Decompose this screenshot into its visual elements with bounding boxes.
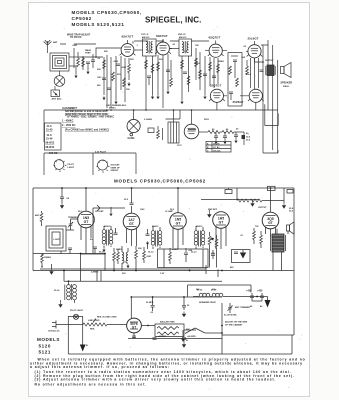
gnd bottom left B- (80, 341, 86, 352)
svg-text:6SQ7GT: 6SQ7GT (209, 36, 221, 40)
svg-text:WAVE TRAP ADJUST: WAVE TRAP ADJUST (67, 34, 91, 37)
right rails (263, 40, 278, 153)
svg-text:ANT. ADJ.: ANT. ADJ. (52, 98, 63, 101)
svg-text:5120: 5120 (39, 344, 51, 349)
tall coupling box (228, 53, 242, 107)
antenna trimmer bottom (227, 303, 232, 313)
IF coil pair C / diode transformer (194, 231, 205, 247)
svg-text:25L6GT: 25L6GT (248, 37, 259, 41)
resistors left of output transformer (253, 228, 263, 248)
label wave trap values (72, 45, 92, 55)
svg-text:OSC. PADDER ADJ.: OSC. PADDER ADJ. (106, 104, 127, 107)
svg-text:+40 MFD: +40 MFD (187, 335, 196, 338)
power transformer (168, 110, 179, 143)
svg-text:110V.AC.DC: 110V.AC.DC (48, 330, 60, 333)
svg-text:456KC: 456KC (152, 225, 159, 228)
tube U3 1N5GT (170, 213, 187, 230)
svg-text:BALLAST RES.: BALLAST RES. (160, 321, 176, 324)
svg-text:OSC: OSC (97, 77, 102, 79)
svg-text:2MEG: 2MEG (218, 61, 224, 63)
svg-text:PILOT LIGHT: PILOT LIGHT (70, 310, 84, 312)
output transformer T1 (266, 65, 275, 76)
svg-text:OUTPUT: OUTPUT (265, 60, 274, 62)
svg-text:MODELS CP5030,CP5060,: MODELS CP5030,CP5060, (72, 10, 142, 15)
note label top-left (67, 34, 91, 40)
left rail (32, 188, 34, 254)
resistor below loop left (41, 254, 44, 268)
svg-text:TRAP: TRAP (85, 52, 91, 55)
svg-text:(3) Adjust antenna trimmer wi: (3) Adjust antenna trimmer with a screw … (35, 378, 277, 382)
osc coil big (58, 281, 76, 308)
bottom-left model label (37, 337, 60, 355)
svg-text:35-L6: 35-L6 (54, 290, 60, 292)
svg-text:25Z6GT: 25Z6GT (233, 100, 244, 104)
svg-text:OF THE CABINET: OF THE CABINET (225, 323, 243, 326)
filter resistors and caps right of rectifier (199, 131, 244, 146)
svg-text:SPEAKER FIELD: SPEAKER FIELD (199, 301, 216, 304)
cap above U2 (130, 188, 134, 213)
svg-text:SPIEGEL, INC.: SPIEGEL, INC. (145, 15, 201, 24)
svg-text:10MEG: 10MEG (44, 257, 51, 259)
legend box (206, 142, 231, 153)
header model list (72, 10, 142, 27)
svg-text:456KC: 456KC (104, 225, 111, 228)
svg-text:(For CP5062 use 600KC and 1400: (For CP5062 use 600KC and 1400KC) (65, 129, 109, 132)
cap C21 (211, 250, 215, 259)
svg-text:25Z6: 25Z6 (204, 119, 210, 121)
svg-text:31-46: 31-46 (46, 138, 53, 141)
gnd B- near middle (181, 330, 185, 342)
svg-text:OUTPUT: OUTPUT (258, 207, 267, 209)
svg-text:ADJUST ON THE SIDE: ADJUST ON THE SIDE (225, 321, 248, 324)
IF can 2 (169, 39, 191, 56)
svg-text:GT: GT (132, 326, 136, 330)
svg-text:25K: 25K (104, 51, 108, 53)
misc wires under tubes (86, 228, 271, 249)
speaker SP (281, 63, 292, 78)
svg-text:98-W14: 98-W14 (46, 146, 55, 149)
under-tube resistors extra (117, 247, 188, 264)
svg-text:I.F. AMP: I.F. AMP (165, 210, 174, 213)
svg-text:GANG: GANG (128, 137, 135, 140)
svg-text:MODELS: MODELS (37, 337, 60, 342)
svg-text:TRIMMER: TRIMMER (68, 217, 78, 219)
right rail (293, 188, 295, 335)
tube U1 1N5GT (78, 211, 95, 228)
electrolytics (248, 293, 271, 308)
svg-text:LOOP: LOOP (54, 239, 61, 241)
tuning condenser C1 (54, 71, 65, 86)
svg-text:B+ AT 85 MA: B+ AT 85 MA (224, 314, 237, 317)
wave trap box (51, 86, 60, 96)
svg-text:LINE CORD: LINE CORD (88, 320, 100, 322)
svg-text:MODELS 5120,5121: MODELS 5120,5121 (72, 22, 125, 27)
wires to 6SA7 (60, 44, 121, 57)
svg-text:117V: 117V (177, 145, 182, 147)
svg-text:35-L2: 35-L2 (148, 252, 154, 254)
svg-text:22K: 22K (130, 59, 134, 61)
svg-text:2 GANG: 2 GANG (144, 118, 152, 121)
mid bus y270 (33, 254, 294, 271)
svg-text:117 AC: 117 AC (213, 146, 220, 149)
svg-text:+450: +450 (257, 290, 263, 293)
line ballast resistor (60, 323, 127, 326)
svg-text:100 KC: 100 KC (49, 152, 58, 155)
svg-text:2MEG: 2MEG (172, 249, 178, 251)
svg-text:FIELD: FIELD (283, 86, 290, 88)
svg-text:105-125: 105-125 (213, 150, 221, 152)
svg-text:6.3V PILOT: 6.3V PILOT (95, 152, 107, 154)
comps under 25L6 (246, 58, 264, 89)
svg-text:ANT: ANT (35, 214, 40, 217)
frame bottom right (222, 334, 294, 336)
antenna ANT (44, 40, 59, 48)
grid wire U1-U2 (93, 205, 125, 254)
comps under IF1 (145, 56, 154, 110)
tube V4 25L6GT (248, 41, 261, 58)
tube V5 6SQ7GT lower (210, 89, 223, 102)
box between U3 U4 (158, 249, 209, 268)
gnd left of U2 (109, 207, 112, 216)
svg-text:1MEG: 1MEG (194, 63, 200, 65)
svg-text:OSC.: OSC. (140, 209, 146, 211)
vertical x80.6 (81, 254, 105, 281)
svg-text:SOCKET: SOCKET (111, 165, 121, 167)
svg-text:456 KC: 456 KC (179, 36, 187, 39)
svg-text:SW: SW (186, 329, 189, 331)
cap + gnd from top bus (60, 188, 64, 209)
svg-text:VOLTS: VOLTS (213, 143, 220, 145)
extra value labels sch1 (136, 44, 274, 147)
IF coil pair B (151, 231, 162, 247)
loop antenna L1 (50, 53, 80, 71)
svg-text:20K: 20K (97, 69, 101, 71)
svg-text:2.2MEG: 2.2MEG (91, 271, 99, 273)
socket S2 (96, 160, 109, 173)
svg-text:6SA7GT: 6SA7GT (122, 35, 134, 39)
IF can 1 (134, 39, 156, 56)
filter chokes 300-300 (193, 293, 248, 297)
svg-text:CP5062: CP5062 (72, 16, 93, 21)
svg-text:B-: B- (186, 340, 189, 342)
svg-text:15K: 15K (126, 89, 130, 91)
loop antenna 2 (46, 226, 74, 251)
comps on top bus (225, 188, 232, 194)
svg-text:VOL: VOL (211, 253, 216, 255)
tube V1 6SA7GT (121, 40, 134, 56)
filament bus (33, 253, 105, 255)
tube U5 3Q5GT (262, 212, 279, 229)
components below 6SA7 (102, 55, 131, 108)
svg-text:1 - 456KC: 1 - 456KC (62, 119, 74, 122)
components below 6SK7 (156, 54, 172, 108)
comps under IF2 (180, 56, 190, 104)
svg-text:RES. IN LINE CORD: RES. IN LINE CORD (97, 317, 117, 319)
volume control (208, 232, 218, 251)
field coil label (283, 86, 290, 88)
svg-text:2 - 1500 KC: 2 - 1500 KC (62, 124, 76, 127)
osc coil below U2 (122, 246, 130, 268)
filament bypass caps (68, 247, 97, 254)
ballast box right of U6 (141, 324, 196, 337)
svg-text:.0001: .0001 (146, 256, 152, 258)
svg-text:PILOT: PILOT (68, 164, 75, 166)
svg-text:RES.: RES. (90, 329, 95, 331)
resistors under U2 (113, 246, 138, 264)
svg-text:B-: B- (86, 345, 89, 347)
svg-text:50L6: 50L6 (246, 74, 252, 76)
svg-text:.0001: .0001 (72, 45, 78, 47)
svg-text:6SK7GT: 6SK7GT (156, 34, 168, 38)
socket S1 (54, 159, 67, 172)
svg-text:456 KC: 456 KC (142, 36, 150, 39)
svg-text:WAVE: WAVE (85, 49, 92, 52)
svg-text:98-W12: 98-W12 (46, 142, 55, 145)
svg-text:1.5V: 1.5V (160, 273, 165, 275)
gnd left of U5 (250, 200, 254, 207)
resistor left rail sch2 (40, 211, 43, 226)
svg-text:+450: +450 (246, 290, 252, 293)
socket box row (44, 153, 136, 175)
sch2 value labels (44, 207, 267, 331)
svg-text:45V: 45V (230, 266, 234, 269)
IF coil pair A (102, 230, 113, 246)
svg-text:SPEAKER: SPEAKER (281, 82, 293, 85)
tube pin stubs (120, 52, 264, 101)
svg-text:I.F. 456KC - OSC. 1500KC - ANT: I.F. 456KC - OSC. 1500KC - ANT 1400KC (67, 115, 114, 118)
svg-text:50K: 50K (138, 248, 142, 250)
components below/left 6SQ7 (195, 48, 220, 99)
svg-text:ANT. TRIMMER: ANT. TRIMMER (235, 306, 250, 309)
svg-text:600KC: 600KC (109, 108, 116, 110)
svg-text:25Z6GT: 25Z6GT (111, 170, 120, 172)
svg-text:6SQ7GT: 6SQ7GT (210, 84, 222, 88)
svg-text:.0001: .0001 (121, 67, 127, 69)
svg-text:o adjust this antenna trimmer.: o adjust this antenna trimmer. If so, pr… (30, 365, 170, 369)
switch diagonal (185, 328, 222, 334)
resistor R1 and wave trap cap (74, 48, 95, 68)
cluster R/C left of 6SA7 (74, 57, 90, 78)
rectifier tube (184, 110, 199, 139)
svg-text:3MEG: 3MEG (116, 249, 122, 251)
svg-text:456KC: 456KC (196, 225, 203, 228)
svg-text:5121: 5121 (39, 350, 51, 355)
svg-text:31-45: 31-45 (46, 129, 53, 132)
mid bus (44, 109, 278, 111)
tube U6 50Y6 (127, 318, 142, 333)
det filter box (232, 250, 251, 263)
tube U2 1A7GT (123, 213, 140, 230)
gnd below loop (49, 264, 53, 275)
tube V2 6SK7GT (157, 39, 170, 55)
tube V3 6SQ7GT (209, 41, 222, 58)
parts table left (45, 123, 62, 150)
output transformer 2 (271, 229, 286, 252)
AC plug (52, 321, 60, 329)
wires below U5 (273, 252, 282, 271)
tube U4 1H5GT (213, 212, 230, 229)
svg-text:ANT: ANT (53, 41, 58, 44)
svg-text:LIGHT: LIGHT (68, 167, 75, 169)
svg-text:90V: 90V (122, 273, 126, 275)
speaker 2 (287, 222, 295, 234)
ant trimmer (68, 219, 78, 230)
caps below ballast (128, 333, 222, 348)
svg-text:10K: 10K (195, 45, 199, 47)
svg-text:No other adjustments are neces: No other adjustments are necessa in this… (35, 383, 148, 387)
tube V6 25Z6GT lower (249, 89, 262, 102)
svg-text:2ND DET.: 2ND DET. (208, 209, 218, 211)
osc label (106, 104, 127, 110)
svg-text:VIEW OF: VIEW OF (111, 167, 121, 169)
svg-text:+40 MFD: +40 MFD (158, 335, 167, 338)
notes text block (62, 107, 114, 132)
extra wires sch1 (133, 41, 256, 130)
small comps right of gang (148, 126, 163, 140)
pilot box (68, 314, 82, 354)
top bus B+ (33, 187, 294, 189)
bottom paragraph (30, 358, 306, 387)
svg-text:1ST DET.: 1ST DET. (95, 211, 104, 213)
svg-text:TO 455 KC: TO 455 KC (70, 36, 82, 39)
caps above U6 (131, 297, 222, 318)
gang condenser (127, 110, 140, 136)
svg-text:.0002: .0002 (113, 61, 119, 63)
frame bottom (68, 303, 292, 354)
wire antenna to loop (47, 48, 49, 53)
svg-text:25 MFD: 25 MFD (146, 302, 154, 304)
comp on bus right (287, 190, 293, 194)
